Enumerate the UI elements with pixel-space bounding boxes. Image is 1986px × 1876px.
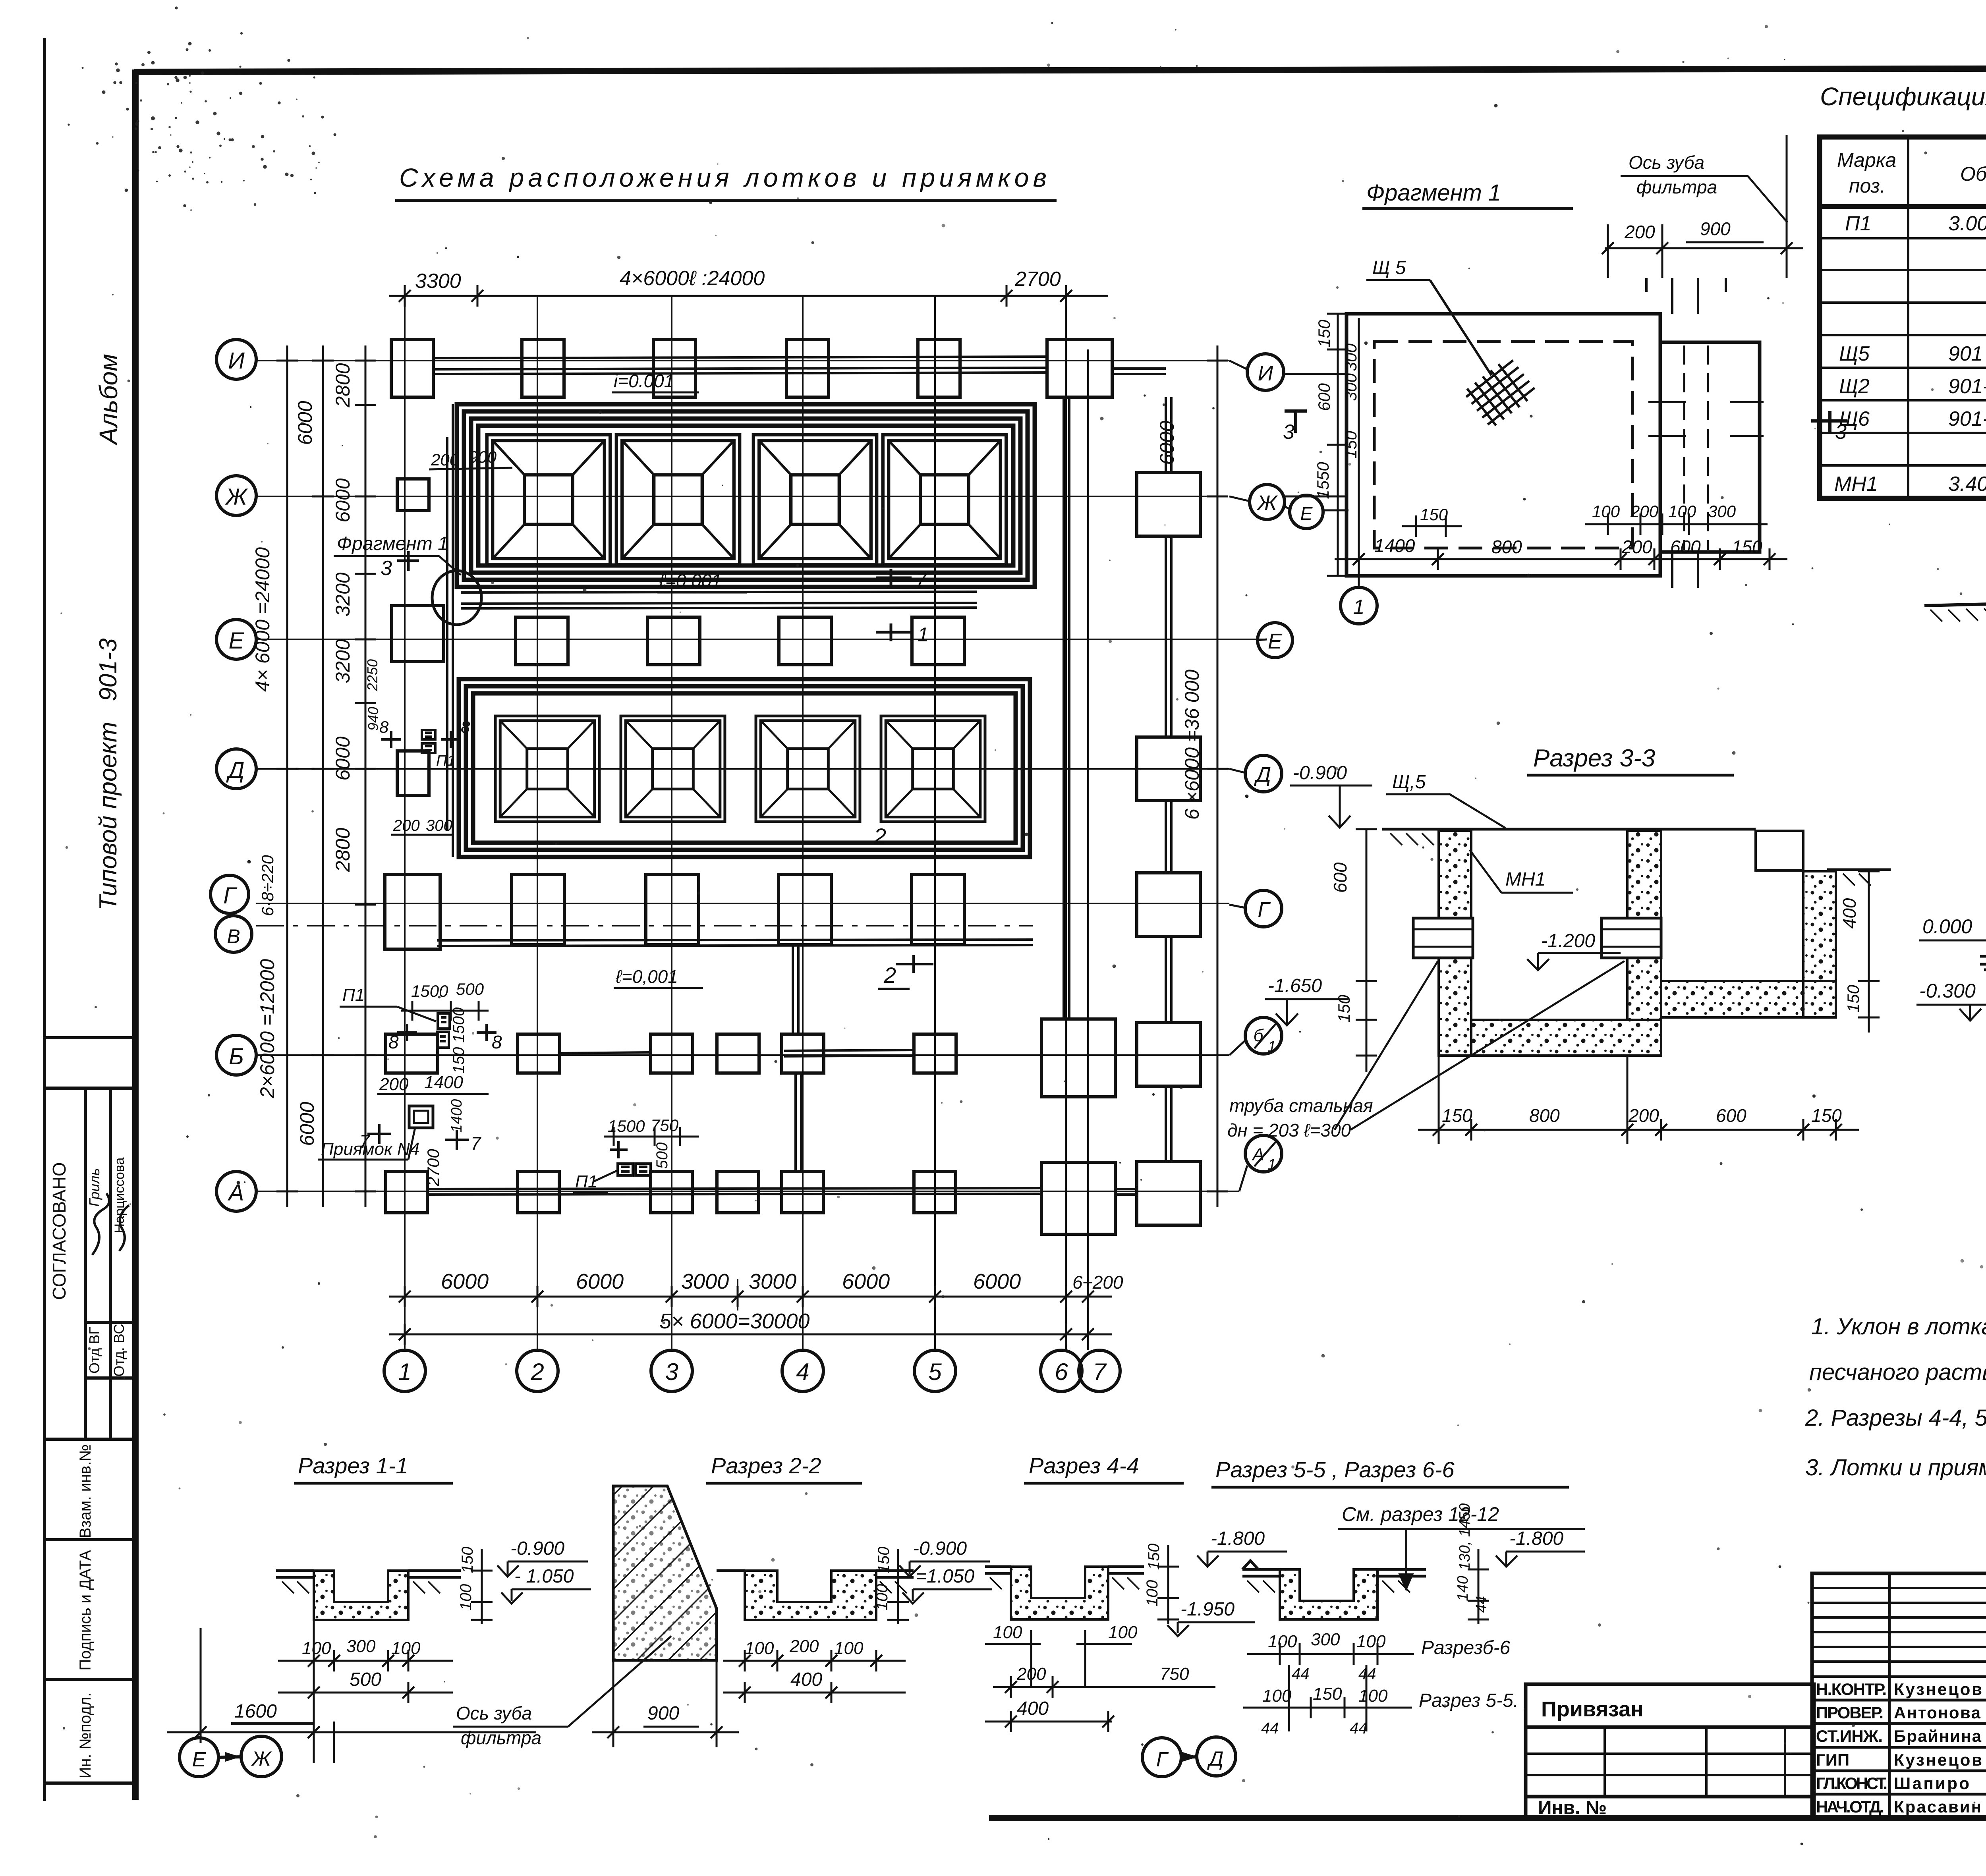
svg-text:150: 150 xyxy=(459,1547,476,1573)
circles Е Ж 1-1 xyxy=(180,1736,282,1777)
svg-text:Типовой проект 901-3: Типовой проект 901-3 xyxy=(95,638,122,911)
svg-text:1550: 1550 xyxy=(1314,462,1332,499)
svg-text:СОГЛАСОВАНО: СОГЛАСОВАНО xyxy=(49,1162,70,1300)
svg-text:150: 150 xyxy=(1442,1105,1472,1126)
ground line 7-7 xyxy=(1924,598,1986,606)
svg-text:901: 901 xyxy=(1948,342,1983,365)
elbow leads from axes to right circles xyxy=(1229,361,1290,1191)
svg-text:Фрагмент 1: Фрагмент 1 xyxy=(337,533,448,554)
names xyxy=(1816,1680,1982,1816)
svg-text:400: 400 xyxy=(1017,1698,1049,1719)
svg-text:Щ 5: Щ 5 xyxy=(1372,257,1406,278)
fragment hatched patch xyxy=(1462,355,1538,429)
grid circle И left xyxy=(211,340,256,1211)
И row channel to right column xyxy=(1112,369,1166,1195)
vertical channel right axis 6 xyxy=(1064,397,1069,1019)
circles Г Д 4-4 xyxy=(1142,1737,1236,1777)
svg-text:3: 3 xyxy=(665,1359,678,1385)
svg-text:3.006- 2.вып.II-2: 3.006- 2.вып.II-2 xyxy=(1948,212,1986,235)
channel 2-2 xyxy=(717,1571,914,1577)
svg-text:500: 500 xyxy=(456,980,484,998)
svg-text:поз.: поз. xyxy=(1849,175,1886,197)
svg-text:Разрез 4-4: Разрез 4-4 xyxy=(1029,1453,1139,1478)
svg-text:600: 600 xyxy=(1330,862,1350,893)
svg-text:фильтра: фильтра xyxy=(461,1727,541,1748)
приямок N4 xyxy=(409,1106,433,1128)
sidebar signature scribbles xyxy=(92,1193,129,1255)
svg-text:2700: 2700 xyxy=(424,1149,442,1187)
svg-text:Б: Б xyxy=(229,1044,244,1069)
upper small table xyxy=(1812,1573,1986,1818)
svg-text:2800: 2800 xyxy=(332,828,354,872)
svg-text:8: 8 xyxy=(492,1032,502,1052)
fragment axis of filter tooth xyxy=(1786,135,1788,278)
bottom axis circles 1-7 xyxy=(384,1350,1120,1392)
svg-text:-0.900: -0.900 xyxy=(510,1538,564,1559)
svg-text:300: 300 xyxy=(1341,343,1360,371)
svg-text:Разрез 5-5.: Разрез 5-5. xyxy=(1419,1690,1518,1711)
svg-text:Г: Г xyxy=(1156,1748,1169,1771)
svg-text:i=0.001: i=0.001 xyxy=(614,371,674,391)
svg-text:44: 44 xyxy=(1261,1720,1279,1737)
svg-text:100: 100 xyxy=(1144,1580,1161,1607)
svg-text:Д: Д xyxy=(1207,1747,1224,1770)
svg-text:Ось зуба: Ось зуба xyxy=(1629,152,1704,173)
plate and rails xyxy=(1980,956,1986,970)
svg-text:100: 100 xyxy=(1108,1623,1138,1642)
svg-text:-1.950: -1.950 xyxy=(1180,1599,1234,1620)
svg-text:И: И xyxy=(1258,361,1273,385)
fragment top pipe stubs xyxy=(1646,278,1726,588)
svg-text:8: 8 xyxy=(388,1032,399,1052)
svg-text:100: 100 xyxy=(391,1639,421,1658)
svg-text:ГИП: ГИП xyxy=(1816,1751,1849,1769)
svg-text:500: 500 xyxy=(350,1669,381,1690)
svg-text:100: 100 xyxy=(873,1584,891,1611)
svg-text:Отд ВГ: Отд ВГ xyxy=(86,1327,102,1374)
1-1 bottom dims xyxy=(302,1637,421,1658)
svg-text:200: 200 xyxy=(379,1075,409,1094)
svg-text:МН1: МН1 xyxy=(1834,473,1878,496)
svg-text:Ж: Ж xyxy=(251,1747,272,1770)
svg-text:4× 6000 =24000: 4× 6000 =24000 xyxy=(251,547,274,692)
svg-text:100: 100 xyxy=(457,1584,475,1611)
svg-text:=1.050: =1.050 xyxy=(916,1566,974,1587)
svg-text:Взам. инв.№: Взам. инв.№ xyxy=(77,1444,94,1538)
svg-text:200: 200 xyxy=(789,1637,819,1656)
svg-text:2700: 2700 xyxy=(1014,268,1061,291)
svg-text:-0.300: -0.300 xyxy=(1919,980,1976,1002)
svg-text:900: 900 xyxy=(1700,218,1731,239)
svg-text:150: 150 xyxy=(875,1547,893,1573)
top dimension line xyxy=(389,285,1108,307)
right outrigger squares column xyxy=(1137,473,1200,1225)
basin 1 pits xyxy=(487,435,610,564)
svg-text:1600: 1600 xyxy=(234,1701,277,1722)
plan: horizontal axis lines И Ж Е Д Г В Б А xyxy=(256,361,1267,1191)
svg-text:4: 4 xyxy=(796,1359,809,1385)
plan: vertical axis lines 1-7 xyxy=(405,296,1088,1350)
sidebar stamp table xyxy=(44,1038,134,1783)
svg-text:100: 100 xyxy=(834,1639,864,1658)
svg-text:Отд. ВС: Отд. ВС xyxy=(111,1324,127,1376)
svg-text:Щ,5: Щ,5 xyxy=(1392,772,1426,793)
svg-text:Е: Е xyxy=(1300,503,1313,524)
svg-text:П1: П1 xyxy=(1845,212,1872,235)
dims line 5-5 xyxy=(1262,1684,1388,1706)
svg-text:6÷200: 6÷200 xyxy=(1072,1272,1123,1293)
svg-text:100: 100 xyxy=(993,1623,1022,1642)
svg-text:44: 44 xyxy=(1350,1720,1368,1737)
svg-text:Приямок N4: Приямок N4 xyxy=(321,1139,419,1159)
svg-text:Альбом: Альбом xyxy=(94,354,123,446)
svg-text:150: 150 xyxy=(1315,319,1333,347)
svg-text:Спецификация элементов к схеме: Спецификация элементов к схеме расположе… xyxy=(1820,82,1986,111)
basin 2 nested walls xyxy=(459,679,1030,857)
svg-text:Брайнина: Брайнина xyxy=(1894,1727,1982,1745)
svg-text:1: 1 xyxy=(398,1359,411,1385)
2-2 bottom dims xyxy=(745,1637,864,1658)
svg-text:600: 600 xyxy=(1670,537,1701,557)
spec table rows xyxy=(1834,212,1986,500)
svg-text:940: 940 xyxy=(365,707,381,731)
svg-text:ПРОВЕР.: ПРОВЕР. xyxy=(1816,1703,1884,1722)
channel below basin 2 xyxy=(437,940,1033,946)
basin 1 nested walls xyxy=(457,404,1035,587)
svg-text:Красавин: Красавин xyxy=(1894,1797,1981,1816)
svg-text:150: 150 xyxy=(1811,1105,1842,1126)
svg-text:Д: Д xyxy=(1254,763,1271,787)
svg-text:600: 600 xyxy=(1315,383,1333,411)
grid circles right xyxy=(1245,354,1323,1172)
svg-text:901-: 901- xyxy=(1948,407,1986,430)
Е row column footings xyxy=(516,617,964,665)
svg-text:Щ5: Щ5 xyxy=(1839,342,1870,365)
svg-text:Е: Е xyxy=(1268,629,1283,653)
svg-text:Марка: Марка xyxy=(1837,149,1896,171)
svg-text:Н.КОНТР.: Н.КОНТР. xyxy=(1816,1680,1887,1698)
svg-text:-1.650: -1.650 xyxy=(1268,975,1322,996)
svg-text:901-: 901- xyxy=(1948,375,1986,398)
svg-text:3000: 3000 xyxy=(749,1270,796,1293)
svg-text:ℓ=0,001: ℓ=0,001 xyxy=(615,966,678,987)
fragment inner dashed walls xyxy=(1374,342,1632,548)
plan: left column footings Ж Е Д rows xyxy=(392,479,444,795)
svg-text:6000: 6000 xyxy=(973,1270,1021,1293)
svg-text:5: 5 xyxy=(928,1359,942,1385)
svg-text:2. Разрезы 4-4, 5-5, 6-6 зам: 2. Разрезы 4-4, 5-5, 6-6 замаркированы н… xyxy=(1805,1405,1986,1431)
svg-text:1: 1 xyxy=(1353,596,1365,619)
А row channel xyxy=(427,1188,1041,1195)
svg-text:Разрезб-6: Разрезб-6 xyxy=(1421,1637,1511,1658)
pipe sleeves xyxy=(1413,918,1661,958)
svg-text:150: 150 xyxy=(1732,537,1762,557)
svg-text:7: 7 xyxy=(1093,1359,1107,1385)
П1 plates near axis 1 row Б xyxy=(437,1013,450,1048)
right vertical channel x~2935 xyxy=(1166,397,1171,1162)
svg-text:6: 6 xyxy=(1055,1359,1068,1385)
svg-text:100: 100 xyxy=(1358,1686,1388,1706)
spec table grid xyxy=(1820,137,1986,498)
svg-text:МН1: МН1 xyxy=(1505,869,1546,890)
basin 2 pits xyxy=(495,716,599,822)
4-4 bottom dims xyxy=(993,1623,1138,1642)
svg-text:2: 2 xyxy=(873,824,886,849)
svg-text:300: 300 xyxy=(1341,373,1360,401)
svg-text:100: 100 xyxy=(1356,1632,1386,1651)
svg-text:200: 200 xyxy=(1624,222,1655,242)
svg-text:Г: Г xyxy=(223,883,238,909)
section mark 1 flags xyxy=(876,569,912,641)
svg-text:100: 100 xyxy=(1268,1632,1297,1651)
svg-text:7: 7 xyxy=(916,569,927,591)
svg-text:6000: 6000 xyxy=(332,736,354,780)
svg-text:500: 500 xyxy=(653,1143,671,1169)
svg-text:Разрез 2-2: Разрез 2-2 xyxy=(711,1453,821,1478)
svg-text:5× 6000=30000: 5× 6000=30000 xyxy=(659,1309,809,1333)
svg-text:дн = 203 ℓ=300: дн = 203 ℓ=300 xyxy=(1227,1120,1351,1141)
svg-text:150 1500: 150 1500 xyxy=(450,1007,468,1074)
svg-text:400: 400 xyxy=(1839,898,1860,928)
plan left edge wall lines xyxy=(447,404,453,857)
svg-text:Е: Е xyxy=(192,1748,207,1771)
ground hatch left xyxy=(1390,833,1871,886)
svg-text:2×6000 =12000: 2×6000 =12000 xyxy=(256,959,278,1099)
svg-text:1. Уклон в лотках i = 0,001: 1. Уклон в лотках i = 0,001 Выполнять за… xyxy=(1811,1314,1986,1339)
svg-text:100: 100 xyxy=(302,1639,331,1658)
svg-text:800: 800 xyxy=(1491,537,1522,557)
Б row column footings xyxy=(386,1019,1115,1097)
svg-text:0.000: 0.000 xyxy=(1922,915,1972,938)
svg-text:Ось зуба: Ось зуба xyxy=(456,1703,532,1724)
svg-text:2250: 2250 xyxy=(364,659,381,691)
svg-text:150: 150 xyxy=(1335,994,1353,1023)
svg-text:1400: 1400 xyxy=(1374,535,1415,556)
svg-text:1400: 1400 xyxy=(448,1099,465,1133)
svg-text:НАЧ.ОТД.: НАЧ.ОТД. xyxy=(1816,1797,1884,1816)
svg-text:150: 150 xyxy=(1844,984,1862,1013)
svg-text:Инв. №: Инв. № xyxy=(1538,1797,1607,1818)
svg-text:750: 750 xyxy=(1160,1664,1189,1684)
svg-text:А: А xyxy=(228,1180,244,1206)
ground line xyxy=(1382,829,1891,870)
А row column footings xyxy=(386,1162,1115,1234)
svg-text:Ин. №подл.: Ин. №подл. xyxy=(77,1693,94,1779)
fragment circle 1 xyxy=(1341,587,1377,624)
svg-text:3200: 3200 xyxy=(332,639,354,683)
svg-text:140: 140 xyxy=(1455,1576,1471,1601)
dims line 6-6 xyxy=(1268,1630,1386,1651)
svg-text:300: 300 xyxy=(1311,1630,1340,1649)
svg-text:130, 1450: 130, 1450 xyxy=(1457,1503,1473,1570)
svg-text:100: 100 xyxy=(1668,502,1696,521)
svg-text:П1: П1 xyxy=(342,985,365,1005)
svg-text:Фрагмент 1: Фрагмент 1 xyxy=(1366,180,1501,206)
svg-text:200: 200 xyxy=(1630,502,1659,521)
svg-text:песчаного раствора.: песчаного раствора. xyxy=(1809,1359,1986,1385)
channel 5-5 xyxy=(1242,1561,1426,1576)
svg-text:800: 800 xyxy=(1529,1105,1560,1126)
plan: И row channel lines xyxy=(433,357,1047,374)
svg-text:Разрез 3-3: Разрез 3-3 xyxy=(1533,745,1655,772)
bottom dims razrez 3-3 xyxy=(1442,1105,1842,1126)
svg-text:1500: 1500 xyxy=(411,982,448,1000)
svg-text:В: В xyxy=(227,925,240,948)
svg-text:СТ.ИНЖ.: СТ.ИНЖ. xyxy=(1816,1727,1883,1745)
right dimension chain xyxy=(1207,345,1228,1207)
svg-text:2: 2 xyxy=(883,963,896,988)
sidebar stamp texts xyxy=(49,1158,127,1779)
svg-text:1: 1 xyxy=(1267,1156,1276,1173)
svg-text:-0.900: -0.900 xyxy=(1293,762,1347,784)
left extension (Привязан / Инв №) xyxy=(1526,1684,1814,1818)
svg-text:Щ2: Щ2 xyxy=(1839,375,1870,398)
svg-text:Ж: Ж xyxy=(224,484,248,510)
svg-text:100: 100 xyxy=(1262,1686,1292,1706)
svg-text:1400: 1400 xyxy=(424,1073,463,1092)
svg-text:-0.900: -0.900 xyxy=(913,1538,967,1559)
svg-text:Г: Г xyxy=(1258,898,1271,922)
svg-text:100: 100 xyxy=(1592,502,1620,521)
svg-text:600: 600 xyxy=(1716,1105,1746,1126)
svg-text:6000: 6000 xyxy=(332,478,354,522)
svg-text:4×6000ℓ :24000: 4×6000ℓ :24000 xyxy=(620,267,765,290)
Г/В row column footings xyxy=(385,874,964,949)
hatched dam xyxy=(613,1486,717,1660)
Д row П1 plates detail xyxy=(381,730,461,753)
svg-text:150: 150 xyxy=(1420,505,1448,524)
svg-text:Е: Е xyxy=(229,628,245,654)
ground + channel 1-1 xyxy=(276,1571,461,1577)
svg-text:300: 300 xyxy=(1708,502,1736,521)
svg-text:44: 44 xyxy=(1292,1665,1310,1683)
svg-text:3000: 3000 xyxy=(681,1270,729,1293)
svg-text:-1.800: -1.800 xyxy=(1211,1528,1265,1549)
svg-text:3. Лотки и приямки выполнять: 3. Лотки и приямки выполнять из бетона М… xyxy=(1805,1455,1986,1480)
svg-text:И: И xyxy=(228,348,245,374)
svg-text:- 1.050: - 1.050 xyxy=(514,1566,574,1587)
svg-text:7: 7 xyxy=(471,1133,481,1154)
sheet edge line xyxy=(43,38,46,1801)
svg-text:Разрез 5-5 , Разрез 6-6: Разрез 5-5 , Разрез 6-6 xyxy=(1215,1457,1455,1482)
fragment left dims xyxy=(1314,319,1360,499)
svg-text:-1.800: -1.800 xyxy=(1509,1528,1563,1549)
vertical channel axis 4 Б-А xyxy=(793,945,801,1172)
svg-text:Гриль: Гриль xyxy=(86,1168,102,1206)
svg-text:Привязан: Привязан xyxy=(1541,1697,1644,1721)
channel between basins xyxy=(461,592,977,608)
svg-text:Подпись и ДАТА: Подпись и ДАТА xyxy=(77,1550,94,1671)
svg-text:6000: 6000 xyxy=(294,401,316,445)
svg-text:См. разрез 12-12: См. разрез 12-12 xyxy=(1342,1503,1499,1525)
svg-text:1: 1 xyxy=(1267,1038,1276,1055)
svg-text:Кузнецов: Кузнецов xyxy=(1894,1751,1982,1769)
fragment 1 detail circle on plan xyxy=(432,571,481,625)
svg-text:400: 400 xyxy=(790,1669,822,1690)
svg-text:1: 1 xyxy=(918,623,929,646)
svg-text:-1.200: -1.200 xyxy=(1541,930,1595,952)
fragment outer walls xyxy=(1347,314,1760,576)
svg-text:150: 150 xyxy=(1313,1684,1342,1704)
svg-text:Кузнецов: Кузнецов xyxy=(1894,1680,1982,1698)
fragment bottom dims xyxy=(1420,502,1736,524)
svg-text:200: 200 xyxy=(1016,1664,1046,1684)
Б row channel xyxy=(560,1050,914,1056)
svg-text:3200: 3200 xyxy=(332,572,354,616)
svg-text:44: 44 xyxy=(1473,1596,1490,1613)
svg-text:фильтра: фильтра xyxy=(1636,177,1717,197)
svg-text:3: 3 xyxy=(1835,421,1847,444)
svg-text:Разрез 1-1: Разрез 1-1 xyxy=(298,1453,408,1478)
svg-text:6000: 6000 xyxy=(296,1102,318,1146)
svg-text:900: 900 xyxy=(647,1703,679,1724)
svg-text:3300: 3300 xyxy=(415,270,461,293)
svg-text:2: 2 xyxy=(530,1359,544,1385)
svg-text:Ж: Ж xyxy=(1256,491,1278,515)
svg-text:6000: 6000 xyxy=(441,1270,489,1293)
plan: И row column footings xyxy=(391,340,1112,397)
svg-text:2800: 2800 xyxy=(332,363,354,407)
svg-text:200: 200 xyxy=(393,817,420,834)
concrete walls (speckled) xyxy=(1439,831,1836,1056)
left dimension chain xyxy=(276,345,376,1207)
svg-text:ℓ=0.001: ℓ=0.001 xyxy=(659,570,722,591)
spec table header xyxy=(1837,149,1986,197)
svg-text:ГЛ.КОНСТ.: ГЛ.КОНСТ. xyxy=(1816,1774,1887,1793)
svg-text:6·8÷220: 6·8÷220 xyxy=(258,855,277,916)
svg-text:3: 3 xyxy=(381,557,392,580)
svg-text:Д: Д xyxy=(226,757,245,783)
svg-text:300: 300 xyxy=(346,1637,376,1656)
svg-text:3: 3 xyxy=(1283,421,1294,444)
svg-text:3.400-6/76: 3.400-6/76 xyxy=(1948,473,1986,496)
svg-text:200: 200 xyxy=(1628,1105,1659,1126)
bottom dimension lines xyxy=(389,1286,1112,1345)
svg-text:6000: 6000 xyxy=(842,1270,890,1293)
svg-text:Обозначение: Обозначение xyxy=(1960,163,1986,185)
svg-text:труба стальная: труба стальная xyxy=(1229,1095,1373,1116)
svg-text:6000: 6000 xyxy=(576,1270,624,1293)
